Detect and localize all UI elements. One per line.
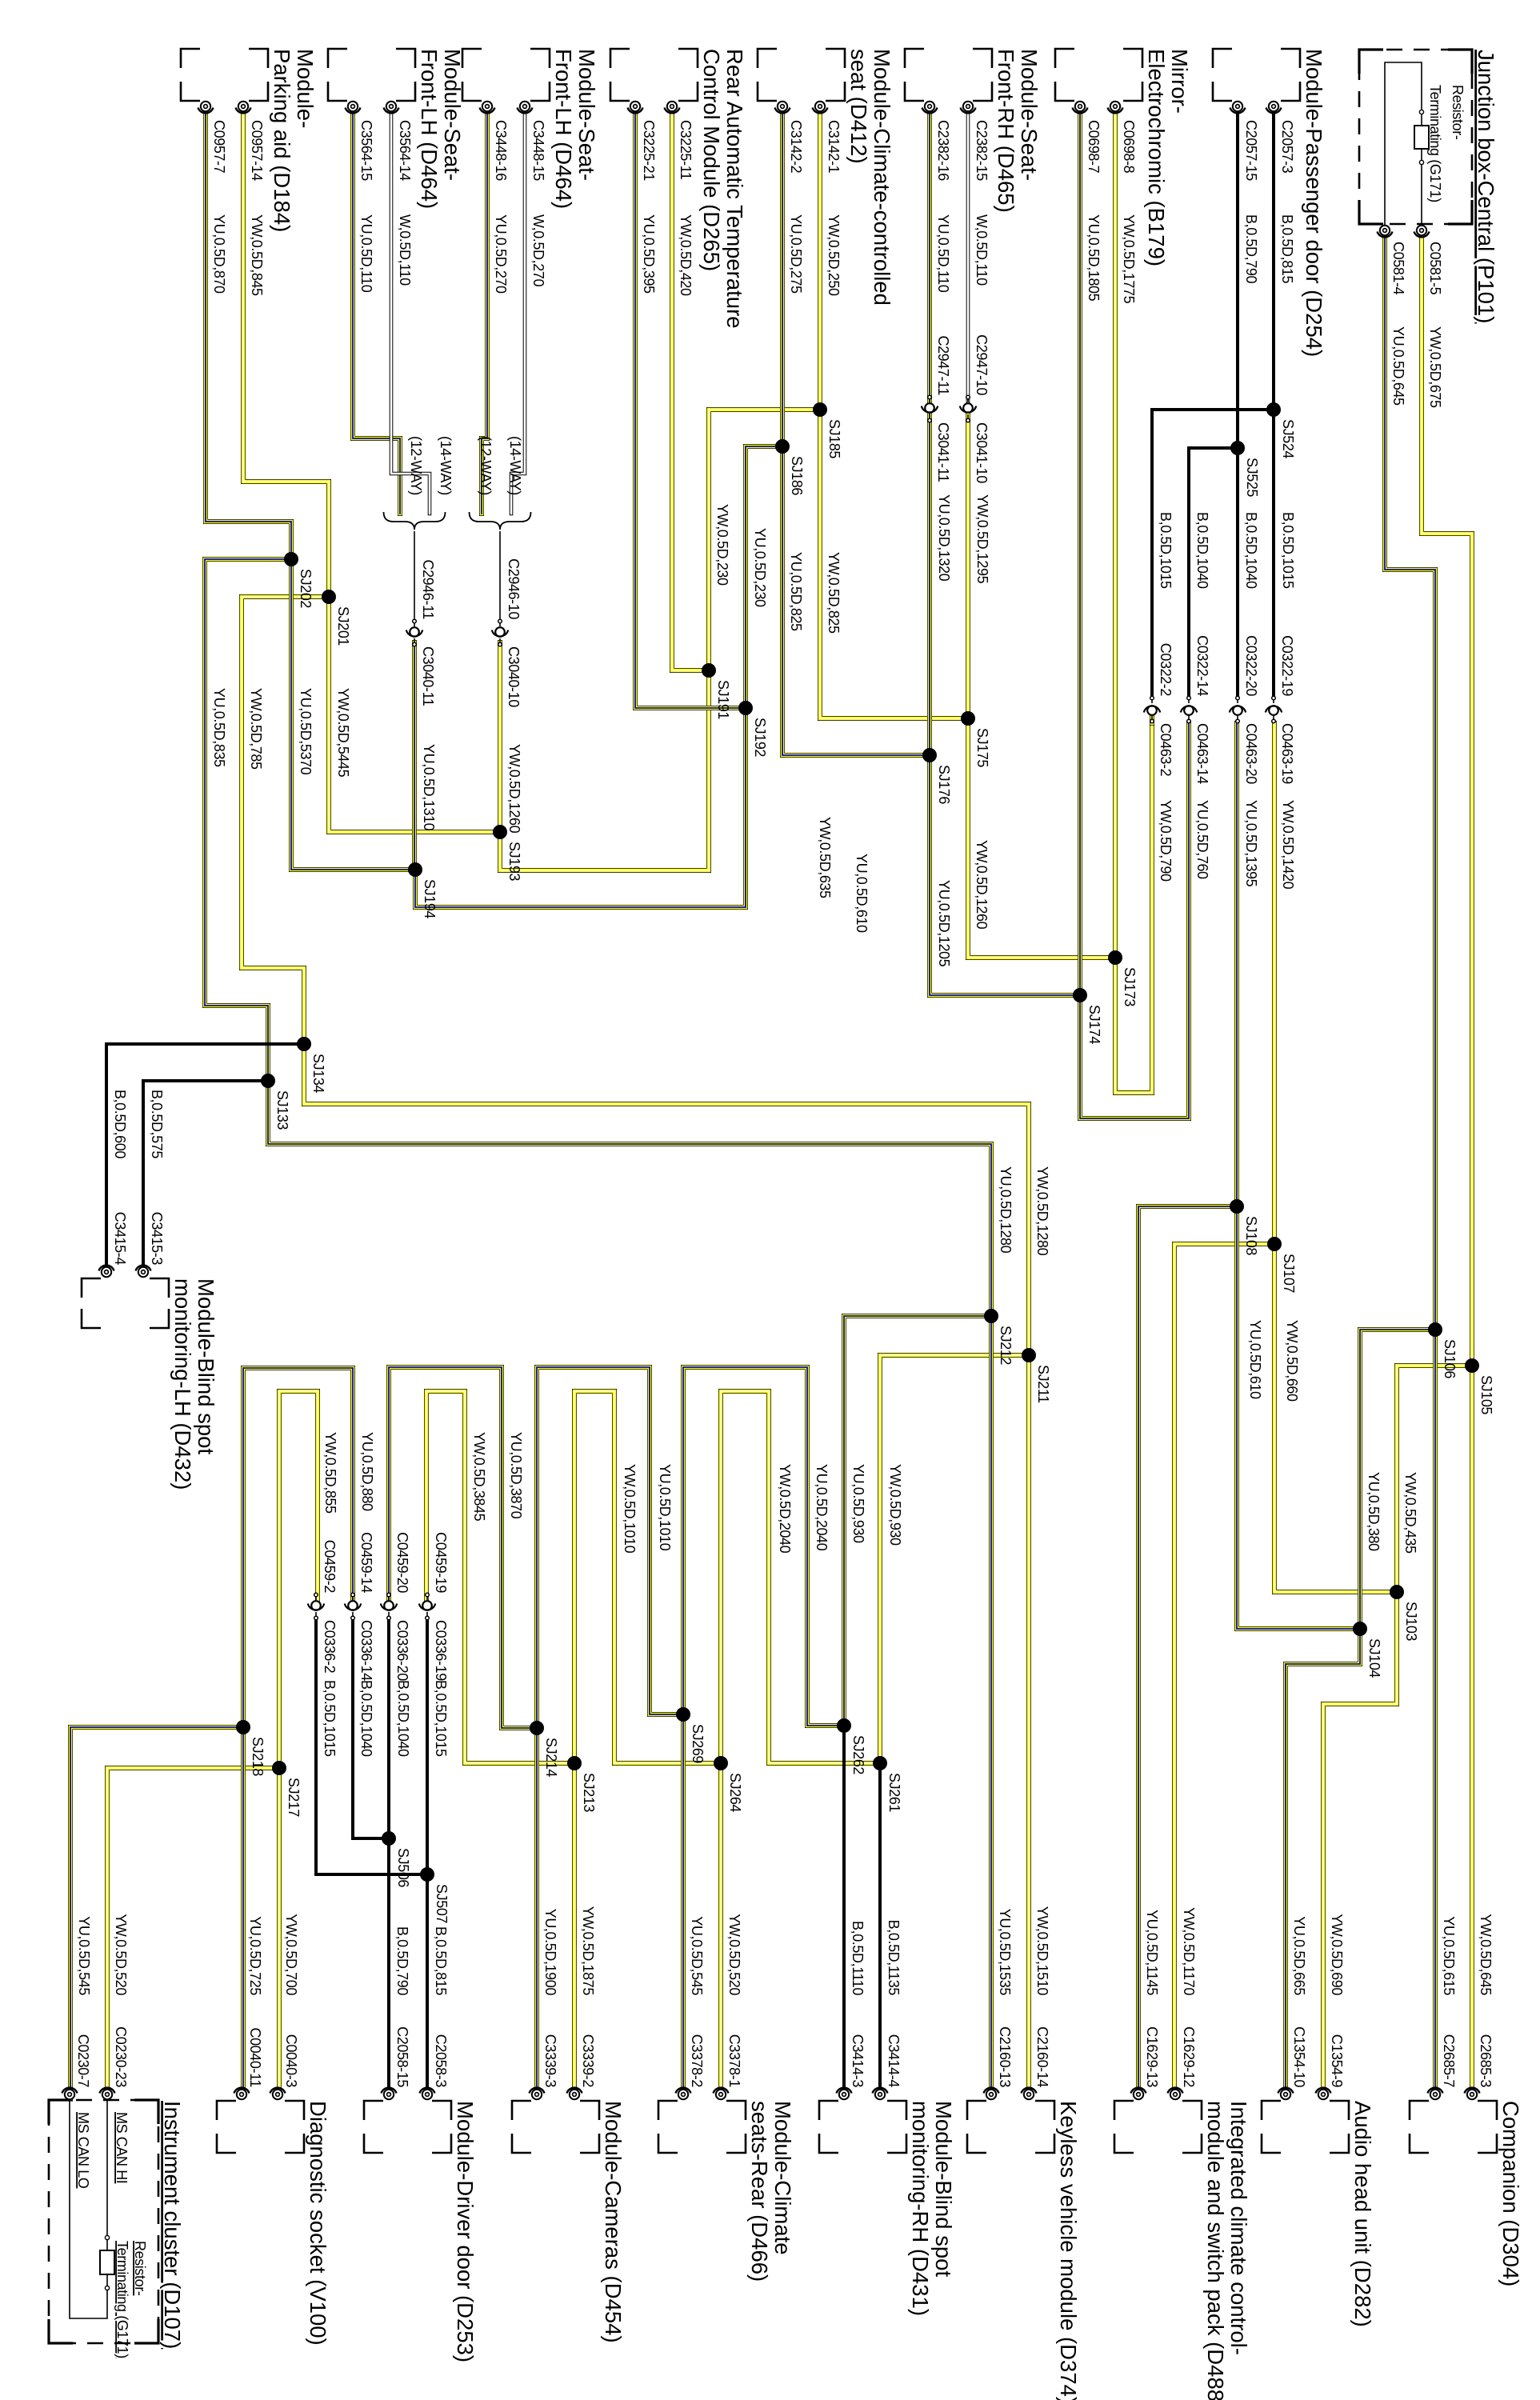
svg-text:B,0.5D,790: B,0.5D,790 xyxy=(394,1926,410,1995)
svg-text:Module-Blind spot: Module-Blind spot xyxy=(194,1278,218,1454)
svg-text:YW,0.5D,250: YW,0.5D,250 xyxy=(826,214,842,296)
svg-text:B,0.5D,815: B,0.5D,815 xyxy=(1279,214,1295,283)
svg-text:B,0.5D,1015: B,0.5D,1015 xyxy=(433,1680,449,1757)
svg-text:SJ107: SJ107 xyxy=(1281,1254,1297,1293)
svg-text:C0581-5: C0581-5 xyxy=(1427,242,1443,295)
svg-text:C0322-20: C0322-20 xyxy=(1243,635,1259,696)
svg-text:C2382-16: C2382-16 xyxy=(935,120,951,181)
svg-text:C2947-10: C2947-10 xyxy=(974,334,990,395)
svg-text:SJ218: SJ218 xyxy=(250,1737,266,1776)
svg-text:Integrated climate control-: Integrated climate control- xyxy=(1226,2101,1251,2355)
svg-text:W,0.5D,110: W,0.5D,110 xyxy=(397,214,413,286)
svg-text:YW,0.5D,1170: YW,0.5D,1170 xyxy=(1181,1907,1197,1995)
svg-text:C0463-2: C0463-2 xyxy=(1158,723,1174,777)
svg-text:Terminating (G171): Terminating (G171) xyxy=(1427,85,1443,202)
svg-text:YU,0.5D,1145: YU,0.5D,1145 xyxy=(1144,1910,1160,1995)
svg-text:SJ106: SJ106 xyxy=(1442,1339,1458,1378)
svg-text:Parking aid (D184): Parking aid (D184) xyxy=(270,49,294,232)
svg-text:C0459-19: C0459-19 xyxy=(433,1532,449,1593)
svg-text:B,0.5D,1135: B,0.5D,1135 xyxy=(886,1920,902,1996)
svg-text:YW,0.5D,1260: YW,0.5D,1260 xyxy=(506,744,522,834)
svg-text:MS CAN HI: MS CAN HI xyxy=(114,2112,130,2183)
svg-text:Module-Climate: Module-Climate xyxy=(770,2101,795,2255)
svg-text:YW,0.5D,660: YW,0.5D,660 xyxy=(1284,1320,1300,1402)
svg-text:Module-Blind spot: Module-Blind spot xyxy=(931,2101,956,2277)
svg-text:YW,0.5D,790: YW,0.5D,790 xyxy=(1158,800,1174,882)
svg-text:C3225-11: C3225-11 xyxy=(678,120,694,180)
svg-text:YU,0.5D,270: YU,0.5D,270 xyxy=(493,214,509,294)
svg-text:YW,0.5D,845: YW,0.5D,845 xyxy=(249,214,265,296)
svg-text:C0957-7: C0957-7 xyxy=(211,120,227,174)
svg-text:C2685-3: C2685-3 xyxy=(1478,2034,1494,2088)
svg-text:YU,0.5D,835: YU,0.5D,835 xyxy=(211,688,227,767)
svg-text:Module-Seat-: Module-Seat- xyxy=(440,49,465,181)
svg-text:SJ173: SJ173 xyxy=(1122,967,1138,1006)
svg-text:Module-Cameras (D454): Module-Cameras (D454) xyxy=(601,2101,626,2343)
svg-text:(12-WAY): (12-WAY) xyxy=(478,436,494,495)
svg-text:C3378-1: C3378-1 xyxy=(726,2034,742,2088)
svg-text:Control Module (D265): Control Module (D265) xyxy=(699,49,724,271)
svg-text:YU,0.5D,665: YU,0.5D,665 xyxy=(1291,1916,1307,1995)
svg-text:B,0.5D,790: B,0.5D,790 xyxy=(1243,214,1259,283)
svg-text:C0463-19: C0463-19 xyxy=(1279,723,1295,784)
svg-text:B,0.5D,1015: B,0.5D,1015 xyxy=(1158,512,1174,589)
svg-text:YU,0.5D,395: YU,0.5D,395 xyxy=(641,214,657,294)
svg-text:YW,0.5D,5445: YW,0.5D,5445 xyxy=(335,688,351,778)
svg-text:YW,0.5D,1010: YW,0.5D,1010 xyxy=(622,1464,638,1554)
svg-text:SJ174: SJ174 xyxy=(1086,1005,1102,1044)
svg-text:C0957-14: C0957-14 xyxy=(249,120,265,181)
svg-text:B,0.5D,815: B,0.5D,815 xyxy=(433,1926,449,1995)
svg-text:YW,0.5D,645: YW,0.5D,645 xyxy=(1478,1914,1494,1995)
svg-text:B,0.5D,1110: B,0.5D,1110 xyxy=(850,1921,866,1995)
svg-text:Front-LH (D464): Front-LH (D464) xyxy=(417,49,442,209)
svg-text:YU,0.5D,1010: YU,0.5D,1010 xyxy=(657,1464,673,1551)
svg-text:Keyless vehicle module (D374): Keyless vehicle module (D374) xyxy=(1056,2101,1081,2400)
svg-text:SJ176: SJ176 xyxy=(936,765,952,804)
svg-text:YU,0.5D,760: YU,0.5D,760 xyxy=(1194,800,1210,879)
svg-text:YU,0.5D,110: YU,0.5D,110 xyxy=(358,214,374,293)
svg-text:YU,0.5D,110: YU,0.5D,110 xyxy=(935,214,951,293)
svg-text:SJ217: SJ217 xyxy=(286,1778,302,1817)
svg-text:YW,0.5D,520: YW,0.5D,520 xyxy=(726,1914,742,1995)
svg-text:Module-Seat-: Module-Seat- xyxy=(574,49,599,181)
svg-text:SJ506: SJ506 xyxy=(395,1848,411,1887)
svg-text:YW,0.5D,420: YW,0.5D,420 xyxy=(678,214,694,296)
svg-text:C0698-7: C0698-7 xyxy=(1086,120,1102,174)
svg-text:YU,0.5D,275: YU,0.5D,275 xyxy=(788,214,804,294)
svg-text:YW,0.5D,825: YW,0.5D,825 xyxy=(826,552,842,634)
svg-text:C3041-11: C3041-11 xyxy=(935,422,951,482)
svg-text:SJ104: SJ104 xyxy=(1366,1638,1382,1678)
svg-text:seats-Rear (D466): seats-Rear (D466) xyxy=(747,2101,772,2282)
svg-text:Resistor-: Resistor- xyxy=(132,2241,148,2296)
svg-text:C3448-16: C3448-16 xyxy=(493,120,509,181)
svg-text:module and switch pack (D488): module and switch pack (D488) xyxy=(1203,2101,1228,2400)
svg-text:SJ202: SJ202 xyxy=(298,569,314,608)
svg-text:SJ507: SJ507 xyxy=(434,1884,450,1923)
svg-text:SJ212: SJ212 xyxy=(998,1326,1014,1365)
svg-text:SJ175: SJ175 xyxy=(974,728,990,767)
svg-text:YU,0.5D,1310: YU,0.5D,1310 xyxy=(421,744,437,831)
svg-text:C0322-19: C0322-19 xyxy=(1279,635,1295,696)
svg-text:C3448-15: C3448-15 xyxy=(530,120,546,181)
svg-text:SJ213: SJ213 xyxy=(581,1773,597,1812)
svg-text:C1354-9: C1354-9 xyxy=(1329,2034,1345,2088)
svg-text:C0230-7: C0230-7 xyxy=(75,2034,91,2088)
svg-text:W,0.5D,110: W,0.5D,110 xyxy=(974,214,990,286)
svg-text:SJ201: SJ201 xyxy=(335,606,351,646)
svg-text:C0698-8: C0698-8 xyxy=(1121,120,1137,174)
svg-text:YW,0.5D,3845: YW,0.5D,3845 xyxy=(471,1432,487,1522)
svg-text:YU,0.5D,930: YU,0.5D,930 xyxy=(850,1464,866,1543)
svg-text:C3142-1: C3142-1 xyxy=(826,120,842,174)
svg-text:C3378-2: C3378-2 xyxy=(689,2034,705,2088)
svg-text:C2947-11: C2947-11 xyxy=(935,335,951,395)
svg-text:Companion (D304): Companion (D304) xyxy=(1498,2101,1523,2286)
svg-text:C0322-14: C0322-14 xyxy=(1194,635,1210,696)
svg-text:SJ134: SJ134 xyxy=(310,1054,326,1093)
svg-text:(12-WAY): (12-WAY) xyxy=(408,436,424,495)
svg-text:B,0.5D,1040: B,0.5D,1040 xyxy=(358,1680,374,1757)
svg-text:C3142-2: C3142-2 xyxy=(788,120,804,174)
svg-text:Front-RH (D465): Front-RH (D465) xyxy=(994,49,1018,213)
svg-text:B,0.5D,600: B,0.5D,600 xyxy=(112,1090,128,1158)
svg-text:Resistor-: Resistor- xyxy=(1450,85,1466,140)
svg-text:SJ185: SJ185 xyxy=(826,419,842,458)
svg-text:YU,0.5D,380: YU,0.5D,380 xyxy=(1366,1472,1382,1551)
svg-text:C3414-3: C3414-3 xyxy=(850,2034,866,2088)
svg-text:YW,0.5D,435: YW,0.5D,435 xyxy=(1402,1472,1418,1554)
svg-text:YW,0.5D,1510: YW,0.5D,1510 xyxy=(1034,1906,1050,1996)
svg-text:YW,0.5D,930: YW,0.5D,930 xyxy=(887,1464,903,1546)
svg-text:C2946-10: C2946-10 xyxy=(506,558,522,619)
svg-text:Rear Automatic Temperature: Rear Automatic Temperature xyxy=(722,49,747,329)
svg-text:Terminating (G171): Terminating (G171) xyxy=(114,2241,130,2358)
svg-text:Module-Driver door (D253): Module-Driver door (D253) xyxy=(453,2101,478,2362)
svg-text:(14-WAY): (14-WAY) xyxy=(438,436,454,495)
svg-text:B,0.5D,1015: B,0.5D,1015 xyxy=(322,1680,338,1757)
svg-text:C3414-4: C3414-4 xyxy=(886,2034,902,2088)
svg-text:Module-: Module- xyxy=(293,49,318,128)
svg-text:SJ269: SJ269 xyxy=(690,1724,706,1763)
svg-text:YW,0.5D,1875: YW,0.5D,1875 xyxy=(580,1906,596,1996)
svg-text:C3339-2: C3339-2 xyxy=(580,2034,596,2088)
svg-text:YU,0.5D,615: YU,0.5D,615 xyxy=(1441,1916,1457,1995)
svg-text:SJ211: SJ211 xyxy=(1035,1365,1051,1403)
svg-text:C0581-4: C0581-4 xyxy=(1390,242,1406,295)
svg-text:YU,0.5D,1395: YU,0.5D,1395 xyxy=(1243,800,1259,887)
svg-text:C1629-12: C1629-12 xyxy=(1181,2026,1197,2087)
svg-text:C3415-3: C3415-3 xyxy=(149,1212,165,1266)
svg-text:YW,0.5D,690: YW,0.5D,690 xyxy=(1329,1914,1345,1995)
svg-text:Module-Seat-: Module-Seat- xyxy=(1017,49,1042,181)
svg-text:SJ192: SJ192 xyxy=(752,718,768,757)
svg-text:C3040-11: C3040-11 xyxy=(420,646,436,706)
svg-text:C0463-20: C0463-20 xyxy=(1243,723,1259,784)
svg-text:C0463-14: C0463-14 xyxy=(1194,723,1210,784)
svg-text:B,0.5D,1015: B,0.5D,1015 xyxy=(1280,512,1296,589)
svg-text:YU,0.5D,1280: YU,0.5D,1280 xyxy=(998,1166,1014,1254)
svg-text:YW,0.5D,700: YW,0.5D,700 xyxy=(283,1914,299,1995)
svg-text:YW,0.5D,675: YW,0.5D,675 xyxy=(1427,326,1443,408)
svg-text:monitoring-RH (D431): monitoring-RH (D431) xyxy=(908,2101,933,2316)
svg-text:YU,0.5D,545: YU,0.5D,545 xyxy=(689,1916,705,1995)
svg-text:C0040-11: C0040-11 xyxy=(247,2027,263,2087)
svg-text:monitoring-LH (D432): monitoring-LH (D432) xyxy=(170,1278,195,1490)
svg-text:Module-Passenger door (D254): Module-Passenger door (D254) xyxy=(1302,49,1326,357)
svg-text:YU,0.5D,5370: YU,0.5D,5370 xyxy=(298,688,314,775)
svg-text:YU,0.5D,1205: YU,0.5D,1205 xyxy=(936,880,952,967)
svg-text:C3339-3: C3339-3 xyxy=(542,2034,558,2088)
svg-text:YW,0.5D,785: YW,0.5D,785 xyxy=(248,688,264,770)
svg-text:YU,0.5D,645: YU,0.5D,645 xyxy=(1390,326,1406,406)
svg-text:YW,0.5D,1260: YW,0.5D,1260 xyxy=(974,840,990,930)
svg-text:Instrument cluster (D107): Instrument cluster (D107) xyxy=(160,2101,185,2349)
svg-text:C1354-10: C1354-10 xyxy=(1291,2026,1307,2087)
svg-text:C1629-13: C1629-13 xyxy=(1144,2026,1160,2087)
svg-text:YU,0.5D,230: YU,0.5D,230 xyxy=(752,528,768,607)
svg-text:YW,0.5D,635: YW,0.5D,635 xyxy=(817,817,833,898)
svg-text:YU,0.5D,610: YU,0.5D,610 xyxy=(1247,1320,1263,1399)
svg-text:Front-LH (D464): Front-LH (D464) xyxy=(551,49,576,209)
svg-text:C2685-7: C2685-7 xyxy=(1441,2034,1457,2088)
svg-text:seat (D412): seat (D412) xyxy=(846,49,871,164)
svg-text:B,0.5D,1040: B,0.5D,1040 xyxy=(1243,512,1259,589)
svg-text:YU,0.5D,825: YU,0.5D,825 xyxy=(788,552,804,631)
svg-text:B,0.5D,1040: B,0.5D,1040 xyxy=(395,1680,411,1757)
svg-text:SJ105: SJ105 xyxy=(1478,1375,1494,1414)
svg-text:YW,0.5D,230: YW,0.5D,230 xyxy=(714,504,730,586)
svg-text:SJ264: SJ264 xyxy=(727,1773,743,1812)
svg-text:YW,0.5D,1295: YW,0.5D,1295 xyxy=(974,494,990,584)
svg-text:SJ186: SJ186 xyxy=(789,456,805,495)
svg-text:(14-WAY): (14-WAY) xyxy=(507,436,523,495)
svg-text:SJ525: SJ525 xyxy=(1244,458,1260,497)
svg-text:C2946-11: C2946-11 xyxy=(420,559,436,619)
svg-text:YU,0.5D,725: YU,0.5D,725 xyxy=(247,1916,263,1995)
svg-text:C0336-2: C0336-2 xyxy=(322,1620,338,1674)
svg-text:C3041-10: C3041-10 xyxy=(974,422,990,483)
svg-text:YU,0.5D,2040: YU,0.5D,2040 xyxy=(814,1464,830,1551)
svg-text:Diagnostic socket (V100): Diagnostic socket (V100) xyxy=(306,2101,330,2346)
svg-text:MS CAN LO: MS CAN LO xyxy=(75,2112,91,2189)
svg-text:Audio head unit (D282): Audio head unit (D282) xyxy=(1350,2101,1375,2327)
svg-text:B,0.5D,1040: B,0.5D,1040 xyxy=(1194,512,1210,589)
svg-text:C3225-21: C3225-21 xyxy=(641,120,657,181)
svg-text:C2160-13: C2160-13 xyxy=(997,2026,1013,2087)
svg-text:YU,0.5D,1535: YU,0.5D,1535 xyxy=(997,1909,1013,1996)
svg-text:C3564-15: C3564-15 xyxy=(358,120,374,181)
svg-text:YW,0.5D,2040: YW,0.5D,2040 xyxy=(777,1464,793,1554)
svg-text:YU,0.5D,880: YU,0.5D,880 xyxy=(359,1432,375,1511)
svg-text:YW,0.5D,1420: YW,0.5D,1420 xyxy=(1280,800,1296,890)
svg-text:C3564-14: C3564-14 xyxy=(397,120,413,181)
svg-text:C2057-3: C2057-3 xyxy=(1279,120,1295,174)
svg-text:C0336-14: C0336-14 xyxy=(358,1620,374,1681)
svg-text:C2058-15: C2058-15 xyxy=(394,2026,410,2087)
svg-text:C0336-20: C0336-20 xyxy=(394,1620,410,1681)
svg-text:YW,0.5D,855: YW,0.5D,855 xyxy=(322,1432,338,1514)
svg-text:SJ191: SJ191 xyxy=(715,680,731,719)
svg-text:C0459-14: C0459-14 xyxy=(358,1532,374,1593)
svg-text:C0459-20: C0459-20 xyxy=(394,1532,410,1593)
svg-text:YU,0.5D,1320: YU,0.5D,1320 xyxy=(936,494,952,582)
svg-text:C0230-23: C0230-23 xyxy=(113,2026,129,2087)
svg-text:C0459-2: C0459-2 xyxy=(322,1540,338,1594)
svg-text:SJ194: SJ194 xyxy=(422,879,438,918)
svg-text:YU,0.5D,870: YU,0.5D,870 xyxy=(211,214,227,294)
svg-text:C2382-15: C2382-15 xyxy=(974,120,990,181)
svg-text:YW,0.5D,1775: YW,0.5D,1775 xyxy=(1121,214,1137,304)
svg-text:B,0.5D,575: B,0.5D,575 xyxy=(149,1090,165,1158)
svg-text:SJ193: SJ193 xyxy=(506,842,522,881)
svg-text:SJ133: SJ133 xyxy=(274,1090,290,1130)
svg-text:YW,0.5D,1280: YW,0.5D,1280 xyxy=(1034,1166,1050,1256)
svg-text:C0040-3: C0040-3 xyxy=(283,2034,299,2088)
svg-text:Mirror-: Mirror- xyxy=(1167,49,1192,114)
svg-text:C3415-4: C3415-4 xyxy=(112,1212,128,1266)
svg-text:Module-Climate-controlled: Module-Climate-controlled xyxy=(870,49,894,306)
svg-text:C2058-3: C2058-3 xyxy=(433,2034,449,2088)
svg-text:SJ261: SJ261 xyxy=(886,1773,902,1812)
svg-text:C2160-14: C2160-14 xyxy=(1034,2026,1050,2087)
svg-text:YU,0.5D,1805: YU,0.5D,1805 xyxy=(1086,214,1102,302)
svg-text:SJ524: SJ524 xyxy=(1280,419,1296,458)
svg-text:Electrochromic (B179): Electrochromic (B179) xyxy=(1144,49,1169,266)
svg-text:C0322-2: C0322-2 xyxy=(1158,643,1174,697)
svg-text:Junction box-Central (P101): Junction box-Central (P101) xyxy=(1474,50,1498,323)
svg-text:SJ214: SJ214 xyxy=(543,1738,559,1777)
svg-text:YU,0.5D,3870: YU,0.5D,3870 xyxy=(508,1432,524,1519)
svg-text:C3040-10: C3040-10 xyxy=(506,646,522,707)
svg-text:YW,0.5D,520: YW,0.5D,520 xyxy=(113,1914,129,1995)
svg-text:SJ262: SJ262 xyxy=(850,1735,866,1774)
svg-text:YU,0.5D,610: YU,0.5D,610 xyxy=(854,854,870,933)
svg-text:C2057-15: C2057-15 xyxy=(1243,120,1259,181)
svg-text:YU,0.5D,1900: YU,0.5D,1900 xyxy=(542,1909,558,1996)
svg-text:SJ108: SJ108 xyxy=(1243,1216,1259,1255)
svg-text:SJ103: SJ103 xyxy=(1403,1602,1419,1641)
svg-text:YU,0.5D,545: YU,0.5D,545 xyxy=(76,1916,92,1995)
svg-text:W,0.5D,270: W,0.5D,270 xyxy=(530,214,546,286)
svg-text:C0336-19: C0336-19 xyxy=(433,1620,449,1681)
